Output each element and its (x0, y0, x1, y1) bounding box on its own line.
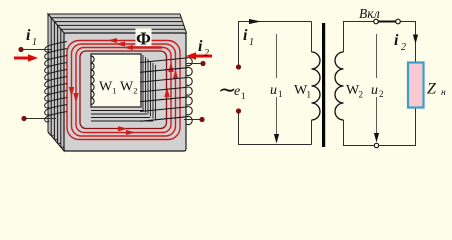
load Zn (408, 63, 424, 108)
W2 bottom terminal wire (184, 119, 202, 121)
core bar (schematic) (322, 23, 325, 147)
svg-text:e: e (234, 84, 240, 99)
u2 arrowhead (374, 133, 379, 143)
flux arrow top line3 with thick tail (131, 46, 162, 48)
window bottom inner wall laminations (91, 110, 144, 112)
source node top (236, 64, 241, 69)
flux arrow right-leg up 2 (173, 69, 178, 79)
svg-text:i: i (198, 38, 203, 55)
core left face (laminated) (48, 14, 64, 151)
flux arrow right-leg up 3 (164, 87, 169, 97)
svg-text:1: 1 (278, 89, 283, 99)
svg-text:Вкл: Вкл (359, 6, 380, 21)
svg-text:u: u (371, 83, 378, 98)
switch blade (376, 21, 398, 23)
flux arrow top line1 (107, 38, 117, 43)
schematic secondary loop wires (343, 22, 416, 146)
wire W2 coil lower lead (343, 120, 345, 146)
i2 terminal wire (186, 63, 203, 65)
flux loop inner (76, 48, 171, 133)
u2 indicator line (376, 34, 378, 139)
winding W1 turns seen in window (91, 56, 94, 104)
window right inner wall laminations (142, 55, 144, 111)
svg-text:Φ: Φ (136, 29, 151, 49)
svg-text:i: i (394, 32, 399, 49)
svg-text:i: i (26, 27, 31, 44)
svg-text:2: 2 (204, 48, 209, 59)
winding W2 turns (right leg, big hooks) (140, 58, 192, 125)
source node bottom (236, 108, 241, 113)
wire right rail upper (415, 22, 417, 64)
coil W1 (schematic) (312, 52, 321, 120)
u1 indicator line (276, 34, 278, 140)
i1 terminal node (18, 47, 23, 52)
schematic primary loop wires (238, 22, 312, 145)
wire bottom secondary (343, 145, 416, 147)
core front face (64, 33, 186, 151)
u1 arrowhead (274, 134, 279, 144)
i1 arrowhead on top wire (249, 19, 261, 24)
wire left rail upper (238, 22, 240, 67)
flux loop outer (67, 41, 180, 140)
i2 terminal node (200, 61, 205, 66)
window (91, 54, 141, 107)
wire top primary (238, 21, 312, 23)
winding W1 turns (left leg, outside hooks) (45, 42, 67, 122)
flux loop middle (72, 44, 176, 136)
wire top secondary left (343, 21, 374, 23)
svg-text:Z: Z (427, 81, 437, 98)
switch contact left (374, 19, 379, 24)
u2 reference node circle (374, 143, 378, 147)
switch contact right (396, 19, 401, 24)
W1 bottom terminal wire (24, 118, 56, 120)
core top face (laminated) (48, 14, 187, 33)
flux arrow right-leg up (168, 62, 173, 72)
svg-text:i: i (243, 27, 248, 44)
svg-text:u: u (270, 83, 277, 98)
flux arrow left-leg down 2 (73, 93, 78, 103)
svg-text:1: 1 (241, 91, 246, 101)
wire left rail lower (238, 112, 240, 145)
wire W1 coil upper lead (311, 22, 313, 53)
wire top secondary right (400, 21, 416, 23)
svg-text:1: 1 (32, 37, 37, 48)
coil W2 (schematic) (335, 52, 344, 120)
flux loop innermost dark (80, 51, 167, 129)
svg-text:2: 2 (401, 42, 406, 53)
flux arrow bottom-middle (126, 130, 136, 135)
wire W1 coil lower lead (311, 120, 313, 145)
wire W2 coil upper lead (343, 22, 345, 53)
svg-text:1: 1 (307, 90, 312, 100)
i1 current arrow (14, 54, 38, 62)
wire right rail lower (415, 107, 417, 146)
svg-text:2: 2 (379, 89, 384, 99)
W1 bottom terminal node (21, 116, 26, 121)
flux arrow top line2 (115, 42, 125, 47)
W2 bottom terminal node (199, 117, 204, 122)
flux arrow bottom-inner (118, 126, 128, 131)
svg-text:1: 1 (249, 37, 254, 48)
flux label box (136, 29, 152, 47)
svg-text:н: н (441, 88, 446, 98)
i2 arrowhead on right rail (413, 35, 418, 45)
wire bottom primary (238, 144, 312, 146)
flux arrow left-leg down (69, 87, 74, 97)
i1 terminal wire (21, 49, 52, 51)
i2 current arrow (186, 52, 212, 60)
svg-text:2: 2 (359, 90, 364, 100)
